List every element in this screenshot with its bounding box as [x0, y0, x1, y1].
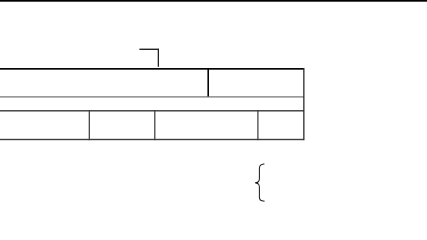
- table row1 top line: [0, 68, 304, 70]
- table row3 bottom line: [0, 139, 304, 140]
- top border rule: [0, 0, 427, 2]
- table row1 bottom gray line: [0, 96, 304, 97]
- table row1 divider: [207, 68, 209, 97]
- left curly brace: [255, 164, 264, 201]
- table right edge: [303, 68, 304, 140]
- brace middle tip wedge: [255, 182, 258, 184]
- table row2 bottom line: [0, 110, 304, 111]
- table row3 divider 2: [154, 110, 155, 140]
- table row3 divider 3: [257, 110, 258, 140]
- table row3 divider 1: [89, 110, 90, 140]
- pointer corner symbol: [139, 49, 159, 67]
